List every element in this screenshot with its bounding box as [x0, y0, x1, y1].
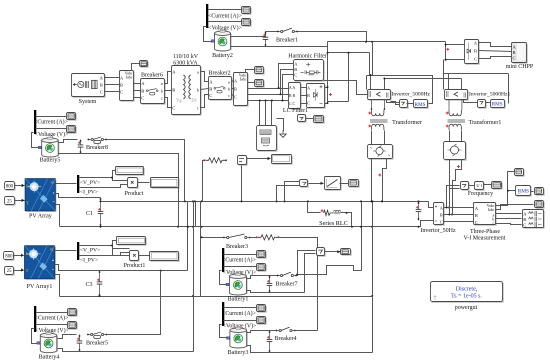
machine block 2: [444, 142, 467, 161]
wire 800 to PV: [15, 185, 25, 187]
wire 7v1 feed a: [298, 251, 316, 275]
wire inv1 loop left: [366, 76, 368, 90]
junction rect minus: [327, 102, 329, 104]
block Product: [128, 178, 139, 189]
svg-text:B: B: [440, 213, 443, 218]
svg-text:Ts = 1e-05 s.: Ts = 1e-05 s.: [451, 293, 482, 299]
svg-text:a: a: [161, 81, 163, 86]
junction rail1 j r1 e: [284, 200, 286, 202]
wire x348 to rectifier: [328, 101, 349, 103]
wire chpp bottom vert right: [508, 74, 510, 104]
breaker Breaker7: [277, 272, 297, 277]
junction C1 rail1: [100, 200, 102, 202]
svg-text:Breaker2: Breaker2: [209, 71, 231, 77]
svg-text:Battery2: Battery2: [212, 53, 233, 59]
svg-text:<V_PV>: <V_PV>: [80, 180, 100, 186]
junction rail1 j r1 b: [194, 200, 196, 202]
breaker Breaker3: [223, 234, 251, 238]
goto Battery1 voltage: [257, 264, 267, 272]
wire inv2 loop left: [443, 74, 445, 90]
red plus transformer top: [368, 112, 371, 115]
svg-text:<Current (A)>: <Current (A)>: [208, 12, 242, 19]
wire Breaker1 out: [298, 32, 367, 42]
svg-text:B: B: [100, 82, 103, 87]
junction rail2 h: [371, 226, 373, 228]
breaker Breaker1: [277, 28, 298, 32]
constant 25: [5, 197, 16, 206]
wire freq tap a: [447, 186, 460, 208]
junction inv1 a: [370, 74, 372, 76]
wire dc bus second: [328, 52, 370, 54]
wire diode feed plus: [446, 44, 465, 46]
wire Battery1 minus: [247, 291, 305, 293]
wire VI2 meas V: [246, 70, 255, 73]
svg-text:Yg: Yg: [176, 98, 182, 103]
wire Battery5 voltage: [36, 128, 67, 130]
wire vertical x187: [187, 202, 189, 271]
wire vertical x195: [195, 202, 197, 227]
svg-text:Breaker7: Breaker7: [276, 281, 298, 287]
red plus machine1: [378, 174, 381, 177]
block current measure i+: [238, 156, 248, 166]
junction tap1: [259, 100, 261, 102]
wire 7v1 out: [325, 251, 341, 253]
block U f Frequency: [475, 182, 485, 191]
red plus transformer1 top: [446, 112, 449, 115]
measurement VI1 Vabc Iabc: [120, 71, 135, 102]
block Product1: [130, 251, 140, 262]
block LC Filter1: [289, 83, 302, 110]
svg-text:C: C: [294, 72, 297, 77]
junction chpp 1: [445, 44, 447, 46]
wire Battery3 voltage: [224, 320, 257, 322]
svg-text:<Current (A)>: <Current (A)>: [34, 119, 68, 126]
inductor Series RLC: [330, 210, 340, 214]
wire machine2 down b: [453, 160, 462, 215]
junction rail3 C3: [99, 295, 101, 297]
display battery1: [341, 249, 352, 256]
svg-text:Invertor_5000Hz: Invertor_5000Hz: [392, 92, 431, 98]
svg-text:Discrete,: Discrete,: [456, 286, 478, 292]
wire phase b rail: [248, 94, 289, 96]
wire tap c phase3: [271, 101, 273, 126]
goto Battery1 current: [257, 251, 267, 259]
svg-text:Battery5: Battery5: [40, 158, 61, 164]
svg-text:PV Array: PV Array: [29, 214, 52, 220]
wire transformer1 down b: [384, 131, 386, 145]
svg-text:800: 800: [6, 185, 14, 190]
wire rail1 step to inverter: [429, 202, 434, 208]
junction PV2 bus x160: [160, 270, 162, 272]
display Product1: [150, 252, 180, 262]
junction HF B: [280, 93, 282, 95]
wire Battery4 minus up: [193, 202, 195, 352]
wire Breaker3 feed: [202, 237, 224, 239]
svg-text:<Current (A)>: <Current (A)>: [35, 315, 69, 322]
wire Battery1 plus: [247, 276, 278, 279]
wire System A to VI: [105, 77, 120, 79]
scope Iabc: [535, 201, 545, 209]
wire feed second row: [385, 78, 462, 80]
junction rect plus: [327, 86, 329, 88]
svg-text:Battery3: Battery3: [228, 350, 249, 356]
red plus machine2: [457, 165, 460, 168]
scope VI2 V: [255, 67, 265, 75]
constant 25 #2: [5, 267, 15, 276]
junction rail1 j r1 g: [360, 200, 362, 202]
wire HF feed B: [281, 70, 294, 95]
wire Breaker4 out: [295, 330, 318, 332]
scope RMS3: [535, 188, 545, 196]
wire VI3 b: [496, 218, 522, 220]
svg-text:B: B: [141, 88, 144, 93]
svg-text:Iabc: Iabc: [240, 77, 247, 81]
junction rail2 f: [201, 226, 203, 228]
junction rail2 a: [100, 226, 102, 228]
junction chpp 2: [445, 59, 447, 61]
pv array PV Array1: [25, 246, 56, 280]
wire inv1 feed2: [384, 79, 386, 90]
wire Vabc tap: [496, 172, 515, 206]
svg-text:A A: A A: [289, 85, 295, 90]
wire vertical x369: [369, 53, 371, 76]
svg-text:<V_PV>: <V_PV>: [80, 248, 100, 254]
wire transformer a: [201, 72, 209, 82]
wire Breaker2 b: [232, 88, 234, 90]
wire Iabc tap: [496, 205, 534, 210]
wire Breaker6 b: [165, 90, 172, 92]
wire HF feed C: [283, 75, 294, 101]
svg-text:C C: C C: [289, 101, 296, 106]
wire rail3: [60, 296, 373, 298]
svg-text:B: B: [307, 93, 310, 98]
block 7v inverter2: [478, 100, 487, 109]
resistor R charge: [203, 158, 227, 163]
wire vertical x327: [327, 42, 329, 88]
svg-text:Harmonic Filter: Harmonic Filter: [288, 54, 327, 60]
wire V_PV 2: [80, 241, 117, 246]
wire System C to VI: [105, 91, 120, 93]
wire LC out C: [301, 103, 307, 105]
wire PV1 minus: [55, 275, 60, 297]
wire VI2 meas I: [248, 82, 255, 84]
svg-text:C: C: [307, 100, 310, 105]
wire chpp bottom: [444, 73, 509, 75]
svg-text:C: C: [120, 89, 123, 94]
svg-text:T: T: [26, 200, 29, 205]
svg-text:B: B: [523, 217, 526, 222]
svg-text:Breaker4: Breaker4: [275, 336, 297, 342]
wire Breaker3 link: [250, 237, 257, 239]
wire product out: [138, 182, 150, 184]
bus selector Battery5: [34, 110, 36, 134]
goto Battery4 voltage: [68, 322, 78, 330]
junction Breaker7 out: [296, 273, 298, 275]
junction HF A: [278, 87, 280, 89]
arrow into curve block: [321, 182, 324, 185]
wire 7v1 feed b: [305, 254, 316, 293]
wire PV1 m out: [55, 250, 77, 252]
wire rect minus: [325, 103, 328, 105]
wire Battery5 current: [36, 116, 67, 118]
junction rail2 d: [187, 226, 189, 228]
scope VI1: [140, 61, 149, 68]
block 7v inverter1: [400, 100, 409, 109]
svg-text:<Current (A)>: <Current (A)>: [222, 257, 256, 264]
constant 800: [5, 182, 16, 191]
battery Battery3: [227, 327, 248, 348]
svg-text:Frequency: Frequency: [468, 191, 493, 197]
svg-text:C3: C3: [85, 282, 92, 288]
svg-text:C: C: [474, 57, 477, 62]
capacitor series Battery3: [267, 331, 273, 353]
wire chpp B: [479, 51, 512, 52]
svg-text:Iabc: Iabc: [488, 208, 495, 212]
wire product1 out: [139, 255, 150, 257]
wire tap c phase2: [265, 101, 267, 126]
battery Battery2: [211, 30, 231, 51]
wire LC out B: [301, 95, 307, 97]
subsystem converter block: [257, 126, 278, 152]
junction x327 y52: [327, 52, 329, 54]
capacitor series Battery4: [77, 335, 83, 352]
wire imeas to display: [247, 158, 271, 160]
junction x372 rail3: [371, 295, 373, 297]
pv array PV Array: [25, 179, 56, 212]
inverter block to mini CHPP: [465, 40, 480, 65]
junction rail1 j r1 d: [276, 200, 278, 202]
wire inv1 feed1: [370, 76, 372, 90]
wire Battery4 m: [32, 329, 40, 344]
junction rail1 j r1 f: [307, 200, 309, 202]
wire vertical x372: [372, 42, 374, 76]
wire inv50 A: [444, 207, 474, 209]
block discrete filter: [325, 177, 342, 191]
svg-text:LC Filter1: LC Filter1: [283, 108, 308, 114]
wire Breaker6 a: [165, 72, 172, 84]
display rect: [314, 116, 325, 124]
display Product: [151, 178, 180, 189]
block RMS inverter2: [491, 100, 506, 109]
wire transformer2 down b: [461, 131, 463, 142]
svg-text:<I_PV>: <I_PV>: [80, 189, 98, 195]
junction V_PV 2: [111, 245, 113, 247]
wire transformer2 down a: [449, 131, 451, 142]
svg-text:RMS: RMS: [415, 102, 426, 108]
capacitor series Battery1: [267, 276, 273, 293]
wire System B to VI: [105, 84, 120, 86]
wire machine1 down a: [371, 159, 373, 202]
wire vertical x361: [361, 202, 363, 271]
display mid: [349, 180, 360, 188]
junction x361 rail2: [360, 226, 362, 228]
bus selector PV Array1: [77, 242, 79, 260]
breaker Breaker4: [276, 327, 296, 332]
wire inv1 to 7v: [387, 100, 400, 103]
svg-text:Product: Product: [125, 191, 144, 197]
wire dc bus top: [328, 41, 446, 43]
wire Battery5 m: [32, 133, 42, 148]
wire Battery1 voltage: [224, 266, 257, 268]
wire LC out A: [301, 87, 307, 89]
measurement block Three-Phase V-I: [474, 203, 497, 226]
svg-text:c: c: [161, 96, 163, 101]
wire Battery2 current tag: [209, 9, 242, 11]
svg-text:Transformer1: Transformer1: [469, 119, 502, 126]
wire Battery5 plus: [59, 140, 78, 143]
wire row2 feed a: [277, 186, 300, 202]
breaker Breaker8: [88, 137, 108, 144]
wire Breaker5 out: [107, 271, 161, 335]
junction rail3 x193: [192, 295, 194, 297]
wire VI1 b: [134, 90, 141, 92]
svg-text:C1: C1: [86, 211, 93, 217]
goto Battery5 current: [67, 113, 77, 121]
svg-text:b: b: [197, 88, 199, 93]
wire I_PV: [80, 185, 128, 188]
wire curve to display: [340, 183, 349, 185]
svg-text:<Voltage (V)>: <Voltage (V)>: [35, 131, 69, 138]
svg-text:b: b: [228, 86, 230, 91]
scope Vabc: [515, 169, 525, 177]
bus selector Battery4: [34, 306, 36, 332]
breaker block Breaker6: [141, 79, 166, 105]
junction freq tap b: [448, 214, 450, 216]
junction rail1 j r1 c: [201, 200, 203, 202]
svg-text:Transformer: Transformer: [392, 119, 422, 126]
wire Battery3 minus: [247, 346, 373, 353]
wire RMS3 out: [531, 191, 534, 193]
wire 800 to PV1: [14, 255, 24, 257]
wire Battery3 m: [220, 325, 230, 338]
block 7v mid: [300, 180, 309, 188]
svg-text:B: B: [294, 67, 297, 72]
svg-text:C: C: [440, 220, 443, 225]
goto Battery5 voltage: [67, 126, 77, 134]
wire 7v rect to display: [306, 118, 314, 120]
svg-text:T: T: [26, 268, 29, 273]
wire PV minus: [56, 205, 60, 227]
junction RMS feed: [507, 190, 509, 192]
wire PV m out: [56, 183, 77, 185]
svg-text:Battery4: Battery4: [39, 355, 60, 361]
junction HF C: [282, 100, 284, 102]
red plus series RLC: [321, 209, 324, 212]
junction V_PV: [111, 177, 113, 179]
capacitor C3: [97, 271, 103, 297]
wire inv1 loop top: [367, 76, 433, 104]
wire VI1 meas out: [132, 64, 140, 71]
wire phase c rail: [248, 100, 289, 102]
svg-text:C: C: [475, 220, 478, 225]
wire Battery4 voltage: [37, 324, 68, 326]
wire Battery1 current: [224, 254, 257, 256]
red plus transformer1 bottom: [446, 125, 449, 128]
inverter block Invertor_5000Hz1: [445, 90, 469, 101]
svg-text:Invertor_5000Hz1: Invertor_5000Hz1: [469, 92, 511, 98]
wire inv2 to 7v: [464, 100, 478, 103]
capacitor series Battery2: [263, 32, 269, 47]
wire vertical x372 lower: [372, 202, 374, 297]
wire Breaker2 a: [232, 81, 234, 82]
wire 7v mid out: [309, 183, 324, 185]
svg-text:C: C: [523, 223, 526, 228]
wire tap c phase: [259, 101, 261, 126]
wire Battery4 plus: [58, 335, 77, 339]
wire Battery3 minus up: [372, 297, 374, 353]
wire inv2 feed1: [448, 74, 450, 90]
wire 7v to RMS1: [407, 103, 414, 105]
wire Battery1 m: [220, 271, 229, 285]
load block three-phase RLC: [523, 210, 545, 229]
wire chpp A: [479, 43, 512, 47]
wire inv50 C: [444, 221, 474, 223]
block RMS inverter1: [414, 100, 429, 109]
goto Battery2 voltage: [242, 19, 252, 27]
source block System: [72, 74, 106, 98]
wire Battery2 m: [204, 27, 212, 42]
wire HF feed A: [279, 64, 294, 89]
display V_PV: [116, 167, 145, 176]
display charge: [272, 155, 293, 165]
svg-text:B: B: [172, 88, 175, 93]
display V_PV 2: [117, 237, 147, 246]
wire phase a rail: [248, 88, 289, 90]
bus selector PV Array: [77, 175, 79, 193]
wire Battery4 current: [37, 312, 68, 314]
measurement VI2 Vabc Iabc: [234, 73, 249, 107]
goto Battery4 current: [68, 309, 78, 317]
ground symbol: [280, 130, 286, 137]
capacitor series Battery5: [78, 140, 84, 154]
wire VI1 a: [134, 83, 141, 85]
junction seriesRLC right: [346, 212, 348, 214]
junction x193 rail1: [192, 200, 194, 202]
svg-text:B: B: [234, 86, 237, 91]
wire transformer1 down a: [371, 131, 373, 145]
red plus rect: [329, 93, 332, 96]
wire 25 to PV1: [14, 270, 24, 272]
red plus mark chpp: [446, 48, 449, 51]
svg-text:Breaker5: Breaker5: [86, 340, 108, 346]
junction inv1 b: [383, 78, 385, 80]
svg-text:c: c: [197, 106, 199, 111]
wire 25 to PV: [15, 200, 25, 202]
wire rect plus: [325, 87, 328, 89]
block Harmonic Filter: [294, 60, 325, 82]
battery Battery5: [38, 137, 58, 157]
junction rail1 j r1 j: [418, 200, 420, 202]
block 7v frequency: [461, 182, 470, 191]
wire inv1 to 7v b: [391, 102, 400, 105]
svg-text:B: B: [475, 213, 478, 218]
junction x187 rail2: [187, 226, 189, 228]
junction top bus 1: [365, 41, 367, 43]
svg-text:V-I Measurement: V-I Measurement: [464, 236, 506, 242]
svg-text:25: 25: [7, 200, 12, 205]
wire VI3 c: [496, 224, 522, 225]
junction machine2 b: [451, 214, 453, 216]
wire Breaker2 c: [232, 95, 234, 96]
svg-text:Breaker1: Breaker1: [276, 38, 298, 44]
svg-text:RMS: RMS: [492, 102, 503, 108]
wire rect vert: [327, 88, 329, 104]
wire 7v to Uf: [469, 185, 475, 187]
inverter block Invertor_50Hz: [434, 203, 445, 226]
svg-text:25: 25: [7, 269, 12, 274]
wire inv2 feed2: [461, 79, 463, 90]
arrow 25: [22, 199, 25, 202]
